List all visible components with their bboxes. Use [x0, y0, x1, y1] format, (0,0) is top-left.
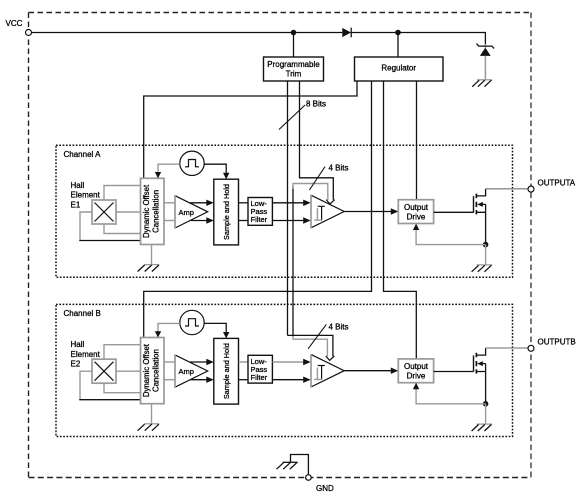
svg-text:Cancellation: Cancellation: [152, 349, 161, 392]
svg-text:GND: GND: [316, 484, 334, 493]
svg-text:4 Bits: 4 Bits: [329, 163, 349, 172]
wire trim bus line 1: [287, 81, 289, 335]
comparator B: [311, 354, 344, 387]
svg-text:Output: Output: [404, 203, 429, 212]
node trim supply junction: [291, 30, 297, 36]
wire LPF B to comparator lower: [272, 377, 310, 383]
wire drain B to OUTPUTB: [486, 347, 528, 349]
wire LPF A to comparator upper: [272, 200, 310, 206]
wire trim bus into comparator B outer: [288, 335, 333, 356]
wire DOC A to amp lower: [164, 220, 175, 222]
svg-text:Drive: Drive: [407, 372, 426, 381]
transistor Q1: [474, 189, 486, 245]
bus arrowhead into comparator A: [326, 200, 335, 204]
sample and hold A: [214, 179, 239, 245]
wire clock B to DOC: [155, 323, 180, 337]
wire DOC A to ground: [151, 245, 153, 265]
Regulator block: [355, 57, 444, 81]
VCC pin: [6, 19, 32, 36]
ground (DOC B): [138, 424, 160, 431]
wire hall E1 bottom contact: [104, 224, 141, 234]
ground (source B): [472, 424, 493, 431]
wire DOC A to amp upper: [164, 202, 175, 204]
wire VCC to Programmable Trim: [293, 33, 295, 58]
wire amp B to S and H lower: [190, 377, 214, 383]
ground (DOC A): [138, 265, 160, 272]
svg-text:Regulator: Regulator: [381, 64, 416, 73]
wire trim bus inner line: [292, 186, 294, 337]
Programmable Trim block: [264, 57, 324, 81]
svg-text:Trim: Trim: [286, 70, 302, 79]
hall element E1: [92, 200, 116, 224]
wire feedback B to output drive: [413, 383, 486, 404]
svg-text:OUTPUTB: OUTPUTB: [538, 338, 576, 347]
GND pin: [306, 475, 334, 493]
wire hall E1 right contact: [116, 211, 141, 213]
wire Regulator to Channel B supply: [144, 81, 372, 338]
label Hall Element E1: [71, 181, 101, 209]
clock oscillator B: [180, 310, 204, 334]
wire LPF A to comparator lower: [272, 217, 310, 223]
wire LPF B to comparator upper: [272, 359, 310, 365]
ground (source A): [472, 265, 493, 272]
wire VCC rail right segment: [351, 32, 485, 34]
wire hall E2 top contact: [104, 345, 141, 360]
wire S and H B to LPF upper: [239, 361, 249, 363]
wire Regulator to Output Drive B: [384, 81, 417, 359]
svg-text:8 Bits: 8 Bits: [306, 100, 326, 109]
svg-text:Hall: Hall: [71, 340, 85, 349]
zener diode Z1: [477, 44, 495, 56]
op-amp B: [175, 354, 208, 387]
hall element E2: [92, 359, 116, 383]
svg-text:OUTPUTA: OUTPUTA: [538, 179, 576, 188]
wire comparator B to output drive: [344, 368, 398, 374]
low-pass filter A: [248, 198, 272, 226]
transistor Q2: [474, 348, 486, 404]
wire source A to ground: [485, 245, 487, 265]
svg-text:Element: Element: [71, 191, 101, 200]
dynamic offset cancellation A: [141, 178, 165, 244]
svg-text:Filter: Filter: [251, 373, 268, 382]
svg-text:Element: Element: [71, 350, 101, 359]
wire VCC to Regulator: [397, 33, 399, 58]
wire S and H A to LPF lower: [239, 220, 249, 222]
wire GND pin to ground: [291, 455, 309, 476]
svg-text:Filter: Filter: [251, 215, 268, 224]
wire VCC to zener: [484, 32, 486, 48]
svg-text:Amp: Amp: [179, 367, 194, 376]
dynamic offset cancellation B: [141, 338, 165, 404]
node source B junction: [483, 401, 489, 407]
wire trim bus into comparator B inner: [293, 336, 327, 356]
wire Regulator to Channel A supply: [144, 81, 357, 178]
svg-text:Sample and Hold: Sample and Hold: [222, 343, 231, 399]
node regulator supply junction: [395, 30, 401, 36]
wire hall E2 right contact: [116, 370, 141, 372]
svg-text:Cancellation: Cancellation: [152, 190, 161, 233]
low-pass filter B: [248, 355, 272, 383]
svg-text:Channel B: Channel B: [64, 309, 101, 318]
Channel B boundary (dotted): [56, 304, 513, 436]
svg-text:Dynamic Offset: Dynamic Offset: [142, 184, 151, 238]
clock oscillator A: [180, 151, 204, 175]
op-amp A: [175, 195, 208, 228]
svg-text:Drive: Drive: [407, 213, 426, 222]
ground (GND pin): [277, 462, 298, 469]
bus arrowhead into comparator B: [326, 356, 335, 360]
wire S and H B to LPF lower: [239, 379, 249, 381]
output drive B: [398, 359, 433, 383]
wire zener to ground: [484, 56, 486, 80]
wire clock B to sample and hold: [204, 323, 229, 338]
svg-text:E2: E2: [71, 360, 81, 369]
svg-text:VCC: VCC: [6, 19, 23, 28]
wire DOC B to amp lower: [164, 379, 175, 381]
output drive A: [398, 200, 433, 224]
wire drain A to OUTPUTA: [486, 188, 528, 190]
label 4 Bits channel B: [308, 323, 348, 349]
label 8 Bits: [279, 100, 326, 130]
OUTPUTB pin: [528, 338, 576, 352]
wire trim bus arrow inner channel A: [293, 184, 328, 201]
svg-text:Output: Output: [404, 362, 429, 371]
wire clock A to DOC: [155, 164, 180, 178]
svg-text:4 Bits: 4 Bits: [329, 323, 349, 332]
wire feedback A to output drive: [413, 224, 486, 245]
wire trim bus line 2: [300, 81, 334, 200]
label Hall Element E2: [71, 340, 101, 368]
wire amp B to S and H upper: [190, 359, 214, 365]
svg-text:Hall: Hall: [71, 181, 85, 190]
wire S and H A to LPF upper: [239, 202, 249, 204]
wire DOC B to amp upper: [164, 361, 175, 363]
node source A junction: [483, 242, 489, 248]
wire DOC B to ground: [151, 404, 153, 424]
wire clock A to sample and hold: [204, 164, 229, 179]
wire hall E2 left contact: [79, 371, 140, 400]
wire hall E2 bottom contact: [104, 383, 141, 393]
diode D1: [342, 28, 351, 38]
wire source B to ground: [485, 404, 487, 424]
wire amp A to S and H upper: [190, 200, 214, 206]
label 4 Bits channel A: [309, 163, 348, 190]
wire amp A to S and H lower: [190, 217, 214, 223]
svg-text:Channel A: Channel A: [64, 150, 102, 159]
wire hall E1 left contact: [79, 212, 140, 241]
svg-text:Amp: Amp: [179, 208, 194, 217]
wire VCC rail left segment: [32, 32, 343, 34]
svg-text:E1: E1: [71, 200, 81, 209]
sample and hold B: [214, 338, 239, 404]
wire Regulator to Output Drive A: [416, 81, 418, 200]
svg-text:Sample and Hold: Sample and Hold: [222, 184, 231, 240]
svg-text:Dynamic Offset: Dynamic Offset: [142, 343, 151, 397]
wire hall E1 top contact: [104, 186, 141, 201]
wire output drive B to gate: [434, 371, 474, 373]
OUTPUTA pin: [528, 179, 576, 193]
comparator A: [311, 195, 344, 228]
Channel A boundary (dotted): [56, 145, 513, 277]
svg-text:Programmable: Programmable: [267, 60, 320, 69]
ground (zener): [472, 80, 492, 87]
wire output drive A to gate: [434, 211, 474, 213]
wire comparator A to output drive: [344, 208, 398, 214]
